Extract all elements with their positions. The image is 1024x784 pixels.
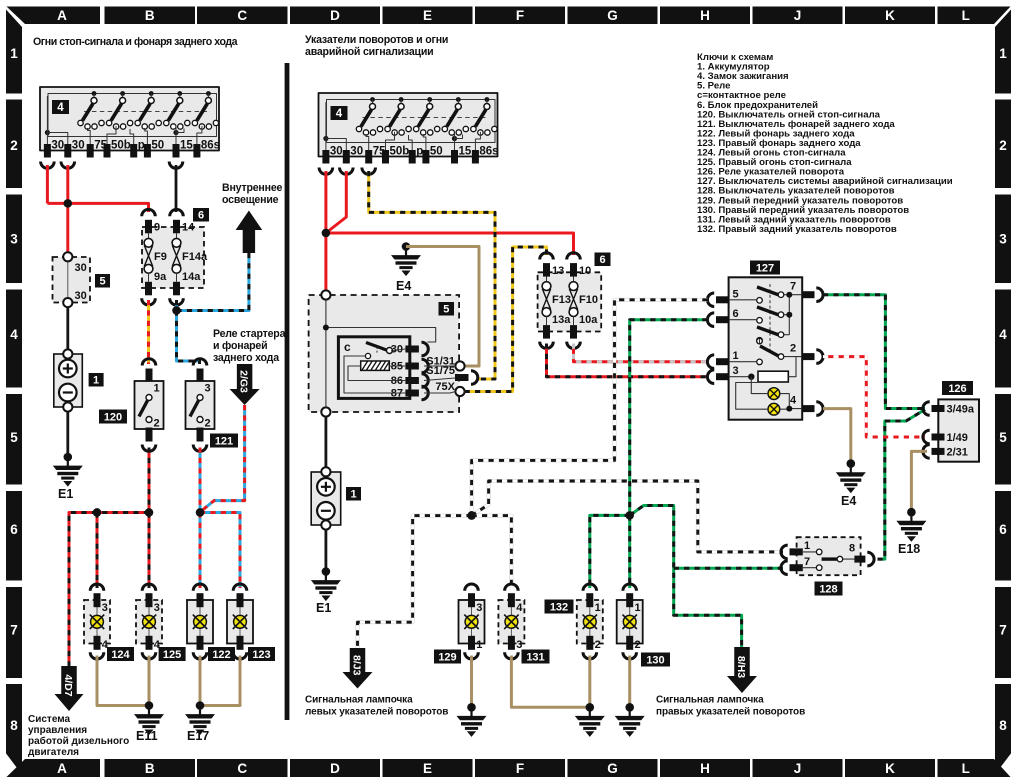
svg-text:H: H [700, 8, 710, 23]
relay 5 pin 85 [391, 359, 429, 373]
svg-text:125: 125 [163, 649, 181, 661]
relay 5 switch lever [366, 343, 387, 351]
svg-text:75X: 75X [435, 381, 455, 393]
svg-text:K: K [885, 761, 895, 776]
svg-text:1: 1 [350, 488, 356, 500]
svg-text:1: 1 [154, 383, 160, 395]
svg-text:8: 8 [10, 718, 18, 733]
battery 1 (left panel) [54, 349, 83, 411]
wire brown lamp 122 down [199, 656, 202, 706]
wire red-black switch 120 down [148, 448, 150, 513]
svg-text:5: 5 [733, 288, 739, 300]
ground E1 (left) [53, 453, 83, 501]
wire red right pin30b down [326, 171, 346, 233]
wire green-black to 8/H3 arrow [630, 506, 742, 648]
label 121 [210, 434, 238, 448]
svg-text:7: 7 [10, 623, 18, 638]
label 124 [107, 647, 134, 661]
svg-text:E4: E4 [396, 279, 411, 293]
fuse F13 [540, 253, 572, 349]
terminal S1/31 [426, 356, 464, 371]
svg-text:двигателя: двигателя [28, 747, 79, 758]
wire yellow-black pin 75 to S1/75 [369, 171, 495, 379]
127 indicator bulb upper [768, 388, 780, 400]
127 pin 6 (left) [707, 308, 738, 326]
svg-text:F: F [516, 8, 524, 23]
svg-text:J: J [794, 8, 802, 23]
svg-text:и фонарей: и фонарей [213, 340, 267, 352]
junction node right red bus [322, 229, 330, 237]
svg-text:E18: E18 [898, 542, 920, 556]
relay 5 pin 86 [391, 374, 429, 388]
svg-text:2: 2 [205, 418, 211, 430]
svg-text:E1: E1 [58, 487, 73, 501]
fuse F9 [142, 209, 167, 305]
svg-text:2: 2 [635, 639, 641, 651]
wire brown lamp 123 to ground E17 [200, 656, 240, 706]
ground E18 [896, 508, 926, 556]
svg-text:3: 3 [999, 232, 1007, 247]
panel divider line [285, 63, 290, 720]
legend key list [697, 52, 953, 235]
frame bottom bar column labels [7, 759, 1011, 777]
svg-text:1: 1 [999, 46, 1007, 61]
stop lamp 125 (right) [136, 584, 162, 659]
svg-text:8/J3: 8/J3 [351, 655, 363, 676]
127 pin 3 (left) [707, 365, 738, 383]
svg-text:L: L [962, 761, 970, 776]
wire red-black to lamp 124 [96, 513, 98, 589]
svg-text:6: 6 [10, 522, 18, 537]
label 125 [159, 647, 186, 661]
wire brown lamp 132 to ground [588, 656, 591, 708]
svg-text:5: 5 [99, 275, 105, 287]
ground below lamp 130 [615, 703, 645, 737]
svg-text:122: 122 [212, 649, 230, 661]
svg-text:E4: E4 [841, 494, 856, 508]
svg-text:8: 8 [849, 543, 855, 555]
127 internal wiring [729, 295, 802, 362]
label 132 [545, 600, 574, 614]
frame top bar column labels [7, 7, 1011, 25]
relay 5 inner contact block [338, 337, 409, 399]
svg-text:Реле стартера: Реле стартера [213, 328, 286, 340]
relay 5 top terminal circle [321, 290, 330, 299]
svg-text:1: 1 [733, 350, 739, 362]
svg-text:F9: F9 [154, 251, 167, 263]
label 1 (right battery) [346, 487, 361, 501]
127 pin3 junction [729, 376, 751, 378]
svg-text:2: 2 [10, 138, 18, 153]
wire blue-red to lamp 122 [199, 513, 201, 589]
127 mechanical link dashed [769, 284, 771, 352]
connector below pin 30a right [319, 168, 333, 175]
svg-text:2: 2 [999, 138, 1007, 153]
label 126 [942, 381, 973, 395]
wire black relay5 to battery right [324, 417, 327, 467]
ground E11 [134, 701, 164, 743]
fuse box 6 (left panel) dashed [142, 227, 204, 288]
relay 5 (left panel) dashed box [53, 257, 91, 303]
127 switch levers [757, 287, 784, 303]
junction node left-turn bus [467, 511, 475, 519]
reverse lamp 123 (right) [227, 584, 253, 659]
svg-text:D: D [330, 761, 340, 776]
svg-text:Огни стоп-сигнала и фонаря зад: Огни стоп-сигнала и фонаря заднего хода [33, 36, 238, 48]
ground below lamp 129 [457, 703, 487, 737]
turn lamp 132 [577, 584, 603, 659]
svg-text:1: 1 [635, 602, 641, 614]
svg-text:126: 126 [948, 383, 966, 395]
wire brown lamp 124 to ground E11 [97, 656, 149, 706]
svg-text:7: 7 [999, 623, 1007, 638]
svg-text:2/G3: 2/G3 [238, 370, 250, 393]
wire red down to relay 5 box [324, 233, 327, 291]
svg-text:F: F [516, 761, 524, 776]
fuse F14a [170, 209, 208, 305]
svg-text:H: H [700, 761, 710, 776]
terminal 75X [435, 381, 464, 396]
svg-text:правых указателей поворотов: правых указателей поворотов [656, 707, 805, 718]
127 pin 7 (right) [790, 281, 823, 302]
127 pin 2 (right) [790, 343, 823, 364]
svg-text:4/D7: 4/D7 [62, 674, 74, 696]
ground E4 (top right) [391, 242, 421, 293]
wire brown lamp 131 to ground [511, 656, 589, 708]
svg-text:4: 4 [516, 602, 523, 614]
svg-text:130: 130 [646, 654, 664, 666]
label 131 [522, 650, 550, 664]
svg-text:13: 13 [552, 265, 564, 277]
svg-text:9a: 9a [154, 271, 167, 283]
arrow 8/H3 right indicator lamp [727, 647, 757, 693]
svg-text:Система: Система [28, 714, 71, 725]
label 122 [208, 647, 235, 661]
connector below pin 30a left [41, 162, 55, 169]
label 5 (left relay) [95, 274, 110, 288]
junction node reverse-light bus [196, 508, 204, 516]
svg-text:1: 1 [10, 46, 18, 61]
wire blue-black to switch 121 [177, 311, 200, 365]
wire blue-red to lamp 123 [200, 513, 240, 589]
svg-text:F13: F13 [552, 294, 571, 306]
turn lamp 129 [459, 584, 485, 659]
svg-text:8: 8 [999, 718, 1007, 733]
junction node red bus [64, 199, 72, 207]
svg-text:E11: E11 [136, 729, 158, 743]
svg-text:A: A [57, 8, 67, 23]
svg-text:D: D [330, 8, 340, 23]
wire blue-red switch 121 down [199, 448, 201, 513]
wire green-black to switch 128 pin7 [674, 567, 783, 569]
ground E17 [185, 701, 215, 743]
svg-text:30: 30 [75, 290, 87, 302]
wire brown lamp 130 to ground [628, 656, 631, 708]
svg-text:3: 3 [476, 602, 482, 614]
svg-text:G: G [607, 8, 618, 23]
svg-text:B: B [145, 761, 155, 776]
svg-text:левых указателей поворотов: левых указателей поворотов [305, 707, 448, 718]
svg-text:4: 4 [999, 327, 1007, 342]
fuse box 6 (right panel) dashed [538, 272, 602, 331]
wire black-white to arrow 8/J3 [358, 516, 472, 648]
svg-text:10a: 10a [579, 314, 598, 326]
relay 5 (right panel) dashed box [309, 295, 460, 412]
svg-text:A: A [57, 761, 67, 776]
svg-text:K: K [885, 8, 895, 23]
junction node lamp 124 feed [93, 508, 101, 516]
svg-text:3: 3 [154, 602, 160, 614]
wire brown E4 to S1/31 [406, 247, 479, 367]
svg-text:6: 6 [599, 254, 605, 266]
wire black-white to switch 128 pin1 [472, 481, 783, 552]
svg-text:3: 3 [733, 365, 739, 377]
wire black pin15 to fuse 14 [175, 165, 178, 212]
reverse-light switch 121 [186, 359, 215, 452]
svg-text:E: E [423, 761, 432, 776]
svg-text:работой дизельного: работой дизельного [28, 735, 129, 747]
interior lighting arrow (up) [236, 211, 263, 254]
svg-text:c: c [344, 340, 351, 354]
svg-text:120: 120 [104, 411, 122, 423]
stop-light switch 120 [135, 359, 164, 452]
turn lamp 130 [617, 584, 643, 659]
frame left bar row labels [6, 10, 22, 775]
128 contacts and lever [803, 552, 855, 568]
svg-text:7: 7 [790, 281, 796, 293]
label 129 [434, 650, 461, 664]
svg-text:Указатели поворотов и огни: Указатели поворотов и огни [305, 34, 448, 46]
127 pin 5 (left) [707, 288, 738, 306]
svg-text:B: B [145, 8, 155, 23]
wire red-white 127 pin2 to relay 126 [823, 357, 925, 437]
svg-text:1: 1 [804, 540, 810, 552]
svg-text:6: 6 [999, 522, 1007, 537]
wire brown lamp 125 down [148, 656, 151, 706]
svg-text:заднего хода: заднего хода [213, 352, 279, 364]
svg-text:2/31: 2/31 [947, 446, 968, 458]
ground below lamp 132 [575, 703, 605, 737]
wire blue-black to interior light arrow [177, 253, 249, 311]
relay 5 pin 30 [391, 342, 429, 356]
wire red-black bus left [69, 513, 149, 667]
svg-text:J: J [794, 761, 802, 776]
svg-text:1: 1 [595, 602, 601, 614]
ground E1 (right) [311, 567, 341, 615]
relay 5 left terminal 30 top [63, 252, 72, 261]
wire brown 127 pin4 to ground E4 [823, 409, 851, 464]
svg-text:3/49a: 3/49a [947, 404, 975, 416]
svg-text:E1: E1 [316, 601, 331, 615]
svg-text:30: 30 [75, 262, 87, 274]
label 6 (right fuse box) [595, 253, 611, 267]
svg-text:124: 124 [111, 649, 130, 661]
wire brown lamp 129 to ground [470, 656, 473, 708]
connector below pin 30b right [340, 168, 354, 175]
turn signal switch 128 dashed box [797, 537, 861, 575]
label 1 (left battery) [89, 373, 104, 387]
wire green-black to lamp 130 [629, 515, 631, 588]
wire blue-red from arrow 2/G3 [200, 405, 245, 513]
wire yellow-red fuse 9a to switch 120 [148, 300, 150, 364]
wire red-black fuse 13a to 127 pin3 [547, 344, 709, 377]
wire blue-black fuse 14a down [176, 300, 178, 311]
stop lamp 124 (left) [84, 584, 110, 659]
svg-text:131: 131 [526, 651, 544, 663]
svg-text:129: 129 [438, 651, 456, 663]
wire yellow-black 75X to fuse 13 [465, 247, 547, 392]
wire black-white to lamp 131 [472, 516, 512, 588]
turn signal relay 126 box [938, 399, 979, 461]
connector below pin 15 left [169, 162, 183, 169]
svg-text:3: 3 [10, 232, 18, 247]
svg-text:Сигнальная лампочка: Сигнальная лампочка [656, 695, 764, 706]
svg-text:2: 2 [595, 639, 601, 651]
label 5 (right relay) [439, 302, 455, 316]
svg-text:C: C [237, 8, 247, 23]
terminal S1/75 [426, 365, 478, 384]
wire red bus to fuse 10 [326, 233, 574, 255]
svg-text:121: 121 [215, 435, 233, 447]
128 pin 1 [781, 540, 810, 559]
svg-text:3: 3 [205, 383, 211, 395]
ignition lock 4 (right panel) [319, 93, 499, 164]
label 123 [248, 647, 275, 661]
junction node interior-light branch [172, 306, 180, 314]
svg-text:аварийной сигнализации: аварийной сигнализации [305, 46, 433, 58]
svg-text:14a: 14a [182, 271, 201, 283]
wire black battery to ground E1 [66, 412, 69, 457]
fuse F10 [567, 253, 599, 349]
svg-text:4: 4 [10, 327, 18, 342]
wire red from pin30b [66, 165, 69, 203]
svg-text:6: 6 [733, 308, 739, 320]
wire green-black 127 pin7 to relay 126 [823, 295, 925, 409]
svg-text:2: 2 [154, 418, 160, 430]
svg-text:13a: 13a [552, 314, 571, 326]
127 pin 4 (right) [790, 395, 823, 416]
svg-text:2: 2 [790, 343, 796, 355]
label 6 (left fuse box) [193, 208, 209, 222]
relay 5 left terminal 30 bottom [63, 298, 72, 307]
126 pin 2/31 [923, 445, 968, 459]
relay 5 coil [361, 361, 390, 370]
turn lamp 131 [498, 584, 524, 659]
svg-text:128: 128 [819, 583, 837, 595]
126 pin 1/49 [923, 430, 968, 444]
svg-text:E17: E17 [187, 729, 209, 743]
svg-text:Сигнальная лампочка: Сигнальная лампочка [305, 695, 413, 706]
arrow 8/J3 left indicator lamp [343, 648, 373, 689]
reverse lamp 122 (left) [187, 584, 213, 659]
arrow 2/G3 to starter relay [230, 364, 260, 405]
svg-text:G: G [607, 761, 618, 776]
svg-text:132: 132 [550, 601, 568, 613]
relay 5 bottom terminal circle [321, 407, 330, 416]
hazard switch 127 box [729, 277, 803, 419]
wire red-black to lamp 125 [148, 513, 150, 589]
svg-text:4: 4 [790, 395, 797, 407]
svg-text:14: 14 [182, 222, 195, 234]
svg-text:8/Н3: 8/Н3 [735, 656, 747, 678]
svg-text:7: 7 [804, 556, 810, 568]
label 128 [815, 582, 843, 596]
wire red right pin30a down [324, 171, 327, 233]
svg-text:3: 3 [516, 639, 522, 651]
wire red down to relay 5 [66, 203, 69, 252]
connector below pin 75 right [362, 168, 376, 175]
svg-text:1: 1 [476, 639, 482, 651]
thin links pins to terminals [424, 366, 456, 393]
wire red bus to fuse 9 [47, 203, 148, 212]
svg-text:1: 1 [93, 374, 99, 386]
ground E4 (lower right) [836, 459, 866, 508]
connector below pin 30b left [61, 162, 75, 169]
svg-text:6: 6 [198, 209, 204, 221]
junction node stop-light bus [145, 508, 153, 516]
svg-text:123: 123 [252, 649, 270, 661]
svg-text:5: 5 [10, 430, 18, 445]
wire black battery right to E1 [324, 530, 327, 572]
svg-text:C: C [237, 761, 247, 776]
127 indicator bulb lower [768, 403, 780, 415]
126 pin 3/49a [923, 402, 975, 416]
svg-text:132. Правый задний указатель п: 132. Правый задний указатель поворотов [697, 224, 897, 235]
label 130 [641, 653, 670, 667]
svg-text:5: 5 [443, 303, 449, 315]
relay 5 pin 87 [391, 386, 429, 400]
wire brown 2/31 to ground E18 [911, 451, 927, 512]
svg-text:L: L [962, 8, 970, 23]
wire red from pin30a [46, 165, 49, 203]
127 bulb wiring [736, 377, 802, 410]
128 pin 8 [849, 543, 874, 566]
relay 5 internal feed wire [326, 300, 436, 408]
svg-text:Внутреннее: Внутреннее [222, 182, 283, 194]
svg-text:управления: управления [28, 725, 87, 736]
svg-text:127: 127 [756, 262, 774, 274]
127 lever row 4 [757, 338, 784, 365]
arrow 4/D7 diesel control [55, 666, 84, 711]
svg-text:F14a: F14a [182, 251, 208, 263]
svg-text:E: E [423, 8, 432, 23]
label 127 [750, 261, 780, 275]
wire green-black 128 pin8 to relay 126 [878, 410, 926, 560]
wire red-gray fuse 10a to 127 pin1 [574, 344, 709, 362]
battery 1 (right panel) [311, 467, 341, 529]
wire green-black 127 pin6 net [630, 320, 708, 516]
svg-text:10: 10 [579, 265, 591, 277]
127 resistor [758, 371, 788, 382]
frame right bar row labels [995, 10, 1011, 775]
svg-text:3: 3 [102, 602, 108, 614]
wire green-black to lamp 132 [590, 515, 630, 588]
svg-text:1/49: 1/49 [947, 432, 968, 444]
ignition lock 4 (left panel) [40, 87, 220, 158]
wire black relay5 to battery [66, 307, 69, 349]
127 pin 1 (left) [707, 350, 738, 368]
relay 5 internal connections [344, 349, 405, 393]
label 120 [99, 410, 127, 424]
128 pin 7 [781, 556, 810, 575]
svg-text:9: 9 [154, 222, 160, 234]
svg-text:S1/75: S1/75 [426, 365, 455, 377]
svg-text:5: 5 [999, 430, 1007, 445]
junction node right-turn bus [626, 511, 634, 519]
svg-text:освещение: освещение [222, 194, 279, 206]
svg-text:F10: F10 [579, 294, 598, 306]
junction dots overlay [64, 199, 72, 207]
